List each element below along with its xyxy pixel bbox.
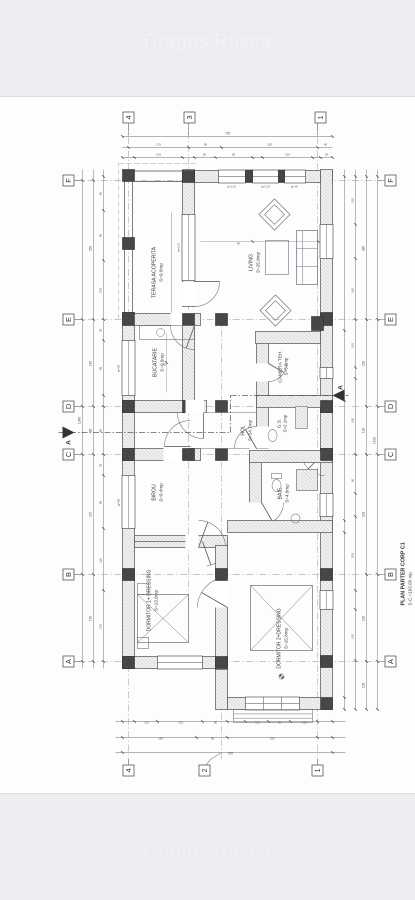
window living 3 (right wall) <box>284 170 305 183</box>
terrace step edge <box>170 212 172 313</box>
roof overhang dashed a <box>117 163 119 318</box>
svg-text:A: A <box>337 384 344 389</box>
entry door/window (porch wall) <box>245 697 299 710</box>
svg-text:1345: 1345 <box>77 416 81 424</box>
wall dormitor divider (axis 2) <box>215 545 227 669</box>
window birou (top wall) <box>122 475 135 528</box>
svg-text:125: 125 <box>98 623 102 628</box>
kitchen interior dim <box>165 332 167 392</box>
svg-text:380: 380 <box>361 245 365 251</box>
svg-text:90: 90 <box>213 720 217 724</box>
nightstand dormitor 1a <box>137 583 148 594</box>
dimension chain top outer <box>81 169 83 668</box>
svg-text:B: B <box>386 571 395 576</box>
svg-text:BAIE: BAIE <box>277 487 283 499</box>
door living-terrace <box>181 281 194 305</box>
svg-text:S=9.0mp: S=9.0mp <box>158 262 163 281</box>
dimension chain bottom inner <box>354 169 356 709</box>
svg-text:90: 90 <box>162 362 166 366</box>
dimension chain left outer <box>115 751 345 753</box>
dimension chain left inner <box>115 720 345 722</box>
porch steps <box>233 709 312 722</box>
wall baie/gs (axis C) <box>249 450 332 462</box>
svg-text:G.S.: G.S. <box>276 418 282 428</box>
section line A-A <box>58 431 230 433</box>
svg-text:E: E <box>386 316 395 321</box>
wall top exterior (axis 4) <box>122 312 134 668</box>
bubble leaders right <box>127 123 129 135</box>
bubble leaders bottom <box>377 660 384 662</box>
pier A2 jog <box>215 656 227 668</box>
dimension chain right inner <box>122 156 332 158</box>
grid bubble A top <box>63 656 74 667</box>
window baie (bottom wall) <box>320 493 333 516</box>
sink baie <box>291 514 300 523</box>
window terrace (axis 3 wall) <box>182 214 195 280</box>
svg-text:LIVING: LIVING <box>248 253 254 270</box>
grid axis C <box>74 453 381 455</box>
svg-text:120: 120 <box>350 197 354 202</box>
svg-text:C: C <box>386 451 395 457</box>
pier C1 <box>320 448 332 460</box>
pier D1 redraw <box>320 400 332 412</box>
svg-text:A: A <box>386 658 395 663</box>
wall dressing partition <box>134 540 196 542</box>
svg-text:115: 115 <box>144 720 149 724</box>
svg-text:HOL: HOL <box>240 425 246 436</box>
wall birou/dormitor1 <box>134 535 227 547</box>
svg-text:A: A <box>64 658 73 663</box>
door baie corridor <box>301 452 324 475</box>
pier D3 <box>182 400 194 412</box>
svg-text:90: 90 <box>98 500 102 504</box>
svg-text:35: 35 <box>98 463 102 467</box>
svg-text:S=14.7mp: S=14.7mp <box>247 419 252 441</box>
grid bubble B bottom <box>385 569 396 580</box>
grid bubble D top <box>63 401 74 412</box>
kitchen counter <box>139 325 194 339</box>
svg-text:230: 230 <box>361 615 365 621</box>
grid bubble C top <box>63 449 74 460</box>
wall left exterior (axis A) <box>122 656 227 668</box>
svg-text:320: 320 <box>266 142 271 146</box>
wall kitchen bottom (axis D) <box>122 400 206 412</box>
svg-text:S=13.9mp: S=13.9mp <box>153 589 158 611</box>
svg-text:150: 150 <box>88 615 92 621</box>
pier F3 redraw <box>182 170 194 182</box>
svg-text:190: 190 <box>350 417 354 422</box>
mullion F wall a <box>245 170 252 182</box>
wall jog (axis 2, entry side) <box>215 656 227 709</box>
window kitchen (top wall) <box>122 340 135 395</box>
living sofa <box>296 230 317 284</box>
svg-text:D: D <box>386 403 395 408</box>
svg-text:110: 110 <box>178 720 183 724</box>
svg-text:735: 735 <box>224 131 230 135</box>
svg-text:90: 90 <box>231 152 235 156</box>
svg-text:BUCATARIE: BUCATARIE <box>152 347 158 376</box>
wall baie top <box>249 456 261 524</box>
svg-text:3: 3 <box>185 115 194 119</box>
nightstand dormitor 1b <box>137 637 148 648</box>
grid axis B <box>74 573 381 575</box>
wall kitchen/terrace (axis E) <box>134 313 200 325</box>
svg-text:60: 60 <box>350 478 354 482</box>
corner pier A4 <box>122 656 134 668</box>
toilet gs <box>268 429 277 441</box>
grid axis F <box>74 179 381 181</box>
svg-text:160: 160 <box>350 287 354 292</box>
svg-text:A: A <box>65 439 72 444</box>
svg-text:S.C.=193.00 mp: S.C.=193.00 mp <box>407 571 412 605</box>
svg-text:110: 110 <box>98 557 102 562</box>
door kitchen-hol <box>185 399 204 412</box>
grid bubble 4 left <box>123 765 134 776</box>
svg-text:1: 1 <box>313 768 322 772</box>
door dormitor 1 <box>185 534 198 547</box>
wall living/terrace (axis 3) <box>182 169 194 306</box>
section marker A bottom <box>332 389 344 401</box>
pier E1-2 corner <box>311 316 323 330</box>
svg-text:90: 90 <box>236 241 240 245</box>
dimension chain right outer <box>122 135 332 137</box>
pier C1 redraw <box>320 448 332 460</box>
svg-text:90: 90 <box>210 736 214 740</box>
svg-text:F: F <box>64 177 73 182</box>
toilet baie <box>272 479 281 491</box>
svg-text:120: 120 <box>350 342 354 347</box>
svg-text:95: 95 <box>98 366 102 370</box>
svg-text:C: C <box>64 451 73 457</box>
svg-text:lg=90: lg=90 <box>290 184 298 188</box>
svg-text:60: 60 <box>98 191 102 195</box>
grid axis A <box>74 660 381 662</box>
svg-text:120: 120 <box>350 633 354 638</box>
section marker A top <box>62 426 74 438</box>
grid bubble 1 right <box>315 112 326 123</box>
bubble leaders top <box>74 660 82 662</box>
wall porch exterior <box>227 697 320 709</box>
svg-text:220: 220 <box>88 511 92 517</box>
svg-text:lg=120: lg=120 <box>261 184 270 188</box>
pier D2 <box>215 400 227 412</box>
door baie <box>248 502 261 524</box>
svg-text:128: 128 <box>361 427 365 433</box>
wall right exterior (axis F) <box>194 170 332 182</box>
svg-text:85: 85 <box>88 428 92 432</box>
bottom watermark band <box>0 794 415 900</box>
grid bubble D bottom <box>385 401 396 412</box>
pier C3 <box>182 448 194 460</box>
roof overhang dashed b <box>118 162 196 164</box>
pier C-2 <box>215 448 227 460</box>
level marker entrance <box>278 673 283 678</box>
dimension chain top middle <box>92 169 94 668</box>
grid bubble F bottom <box>385 175 396 186</box>
grid axis 2 <box>220 316 222 759</box>
svg-text:S=3.5mp: S=3.5mp <box>283 357 288 375</box>
pier C4 <box>122 448 134 460</box>
door camera tehnica <box>255 363 268 381</box>
wall camera/gs divider (axis D) <box>256 395 332 407</box>
washer gs <box>295 406 307 428</box>
corner pier F1 <box>320 170 332 182</box>
living armchair 2 (rotated) <box>259 294 290 325</box>
svg-text:1420: 1420 <box>372 436 376 444</box>
dimension chain bottom innermost <box>343 169 345 709</box>
svg-text:128: 128 <box>361 682 365 688</box>
window living 2 (right wall) <box>252 170 278 183</box>
grid axis 4 <box>127 111 129 764</box>
grid bubble 2 left <box>199 765 210 776</box>
svg-text:BIROU: BIROU <box>151 484 157 501</box>
shower baie <box>296 469 317 490</box>
svg-text:115: 115 <box>255 720 260 724</box>
svg-text:95: 95 <box>203 142 207 146</box>
svg-text:283: 283 <box>269 736 274 740</box>
svg-text:E: E <box>64 316 73 321</box>
svg-text:S=15.8mp: S=15.8mp <box>283 627 288 649</box>
wall living bottom <box>255 331 320 343</box>
window living (bottom wall) <box>320 224 333 258</box>
mullion F wall b <box>278 170 284 182</box>
pier A1 <box>320 655 332 667</box>
grid axis 3 <box>187 111 189 600</box>
svg-text:160: 160 <box>88 360 92 366</box>
pier E4 <box>122 312 134 325</box>
bubble leaders left <box>127 759 129 764</box>
door dormitor 2 <box>214 577 227 607</box>
wall baie/dormitor2 <box>227 520 332 532</box>
pier B4 <box>122 568 134 580</box>
svg-text:PLAN PARTER CORP C1: PLAN PARTER CORP C1 <box>400 542 406 605</box>
door gs <box>255 426 268 448</box>
door dressing <box>206 541 227 566</box>
grid bubble A bottom <box>385 656 396 667</box>
svg-text:lg=80: lg=80 <box>116 498 120 506</box>
window living 1 (right wall) <box>218 170 245 183</box>
svg-text:255: 255 <box>88 245 92 251</box>
grid bubble 1 left <box>312 765 323 776</box>
svg-text:90: 90 <box>277 720 281 724</box>
terrace edge (side, open) <box>134 180 194 182</box>
pier E3 <box>182 313 194 325</box>
corner pier porch-1 <box>320 697 332 709</box>
wall camera tehnica top <box>256 336 268 448</box>
grid bubble C bottom <box>385 449 396 460</box>
terrace pier middle <box>122 237 134 249</box>
svg-text:2: 2 <box>200 768 209 772</box>
wall bottom exterior (axis 1) <box>320 169 332 709</box>
grid bubble E bottom <box>385 314 396 325</box>
pier D1 <box>320 400 332 412</box>
svg-text:CAMERA TEH.: CAMERA TEH. <box>277 350 283 382</box>
pier F3 <box>182 170 194 182</box>
svg-text:lg=120: lg=120 <box>176 242 180 251</box>
hol edge line <box>200 447 249 449</box>
pier B1 <box>320 568 332 580</box>
svg-text:lg=90: lg=90 <box>116 364 120 372</box>
svg-text:25: 25 <box>324 152 328 156</box>
svg-text:S=4.9mp: S=4.9mp <box>284 483 289 502</box>
door birou <box>163 447 189 460</box>
grid bubble 4 right <box>123 112 134 123</box>
dimension chain left middle <box>115 736 345 738</box>
svg-text:35: 35 <box>98 328 102 332</box>
pier E-2 <box>215 313 227 325</box>
svg-text:595: 595 <box>227 751 233 755</box>
svg-text:200: 200 <box>350 552 354 557</box>
pier D4 <box>122 400 134 412</box>
dimension chain top inner <box>102 169 104 668</box>
svg-text:175: 175 <box>155 142 160 146</box>
bed dormitor 1 <box>137 594 188 642</box>
svg-text:DORMITOR 1+ DRESSING: DORMITOR 1+ DRESSING <box>146 569 152 631</box>
svg-text:1: 1 <box>316 115 325 119</box>
svg-text:DORMITOR 2+DRESSING: DORMITOR 2+DRESSING <box>276 608 282 668</box>
svg-text:155: 155 <box>155 152 160 156</box>
wall kitchen right (axis 3) <box>182 324 194 412</box>
top watermark band <box>0 0 415 97</box>
grid bubble B top <box>63 569 74 580</box>
svg-text:S=25.9mp: S=25.9mp <box>255 251 260 273</box>
svg-text:S=2.1mp: S=2.1mp <box>282 414 287 432</box>
grid axis D <box>74 405 381 407</box>
svg-text:S=9.4mp: S=9.4mp <box>158 482 163 501</box>
window dormitor 2 (bottom wall) <box>320 590 333 609</box>
pier B-2 <box>215 568 227 580</box>
grid bubble F top <box>63 175 74 186</box>
living armchair 1 (rotated) <box>258 198 289 229</box>
svg-text:F: F <box>386 177 395 182</box>
living table <box>265 240 288 274</box>
corner pier F4 <box>122 169 134 181</box>
grid axis E <box>74 318 381 320</box>
svg-text:230: 230 <box>361 360 365 366</box>
dimension chain right middle <box>122 146 332 148</box>
grid bubble E top <box>63 314 74 325</box>
svg-text:B: B <box>64 571 73 576</box>
dimension chain bottom outer <box>376 169 378 709</box>
living interior dim <box>200 240 318 242</box>
svg-text:4: 4 <box>124 115 133 119</box>
window camera tehnica (bottom wall) <box>320 367 333 378</box>
bed dormitor 2 <box>250 585 312 650</box>
svg-text:105: 105 <box>98 287 102 292</box>
door kitchen <box>170 312 194 325</box>
svg-text:85: 85 <box>98 428 102 432</box>
svg-text:348: 348 <box>157 736 162 740</box>
svg-text:TERASA ACOPERITA: TERASA ACOPERITA <box>151 246 157 298</box>
svg-text:40: 40 <box>323 142 327 146</box>
svg-text:4: 4 <box>124 768 133 772</box>
svg-text:115: 115 <box>302 720 307 724</box>
window dormitor 1 (left wall) <box>157 656 202 669</box>
wall birou top (axis C) <box>122 448 200 460</box>
pier E1 <box>320 312 332 325</box>
svg-text:318: 318 <box>361 511 365 517</box>
dimension chain bottom mid <box>365 169 367 709</box>
svg-text:60: 60 <box>202 152 206 156</box>
grid bubble 3 right <box>184 112 195 123</box>
svg-text:120: 120 <box>284 152 289 156</box>
svg-text:90: 90 <box>98 233 102 237</box>
terrace edge (top, open colonnade) <box>123 169 125 312</box>
svg-text:D: D <box>64 403 73 408</box>
svg-text:lg=120: lg=120 <box>227 184 236 188</box>
grid axis 1 <box>316 111 318 764</box>
